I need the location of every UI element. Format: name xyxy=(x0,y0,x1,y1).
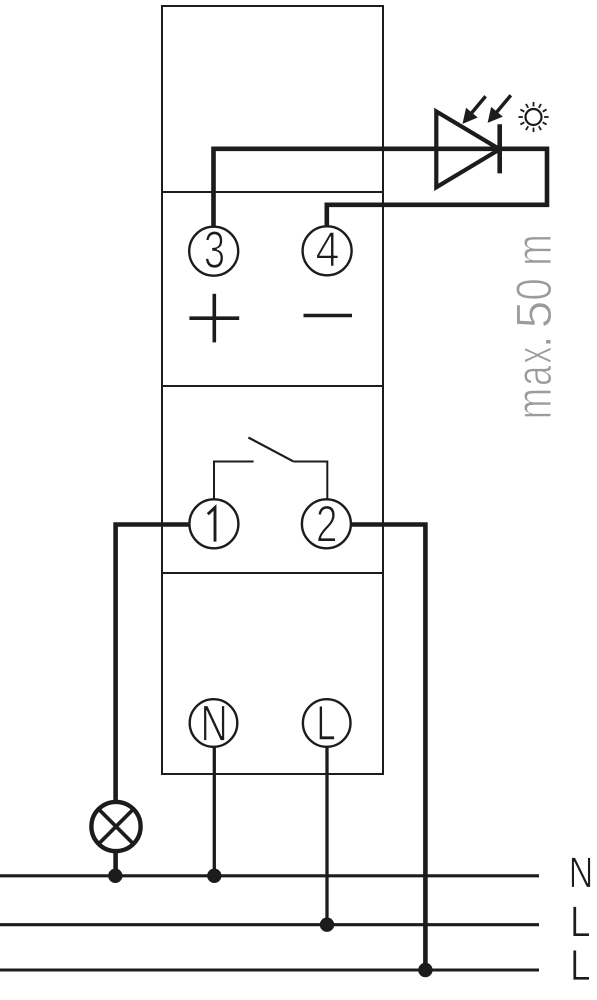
bus line L xyxy=(0,923,539,926)
junction dot terminal N to bus N xyxy=(207,869,221,883)
label N xyxy=(572,858,591,888)
section divider 1 xyxy=(162,191,383,193)
wire sensor cathode loop back to terminal 4 xyxy=(327,149,547,226)
section divider 3 xyxy=(162,572,383,574)
junction dot wire 2 to bus L2 xyxy=(418,963,432,977)
light arrow 1 xyxy=(463,96,485,123)
light arrow 2 xyxy=(488,95,511,122)
switch S: blade xyxy=(248,438,293,462)
terminal 2 xyxy=(302,499,351,548)
digit 1 xyxy=(208,508,215,542)
wire lamp to bus N xyxy=(113,851,118,876)
switch S: right contact bar xyxy=(293,461,327,463)
terminal 3 xyxy=(189,227,238,276)
junction dot terminal L to bus L xyxy=(320,918,334,932)
label L2 xyxy=(573,950,589,980)
terminal 4 xyxy=(303,226,352,275)
wire terminal 1 to lamp xyxy=(116,525,190,802)
junction dot lamp to bus N xyxy=(108,869,122,883)
switch S: left riser xyxy=(213,461,215,501)
terminal L xyxy=(303,699,351,747)
lamp xyxy=(91,802,140,851)
terminal 1 xyxy=(189,499,238,548)
switch S: left contact bar xyxy=(213,461,254,463)
section divider 2 xyxy=(162,385,383,387)
minus sign xyxy=(304,314,353,318)
sun symbol xyxy=(518,102,548,132)
terminal N xyxy=(190,699,238,747)
max. 50 m label xyxy=(516,237,551,417)
wire terminal 3 to sensor anode xyxy=(214,149,501,226)
bus line L2 xyxy=(0,968,539,971)
device outline box xyxy=(162,6,383,774)
wire terminal L to bus L xyxy=(325,747,328,925)
wire terminal 2 to line L2 xyxy=(352,525,426,971)
photodiode cathode bar xyxy=(497,124,502,173)
wire terminal N to bus N xyxy=(213,747,216,876)
photodiode sensor triangle xyxy=(436,111,499,187)
label L xyxy=(573,907,589,937)
bus line N xyxy=(0,874,539,877)
switch S: right riser xyxy=(326,461,328,501)
plus sign xyxy=(189,294,239,343)
